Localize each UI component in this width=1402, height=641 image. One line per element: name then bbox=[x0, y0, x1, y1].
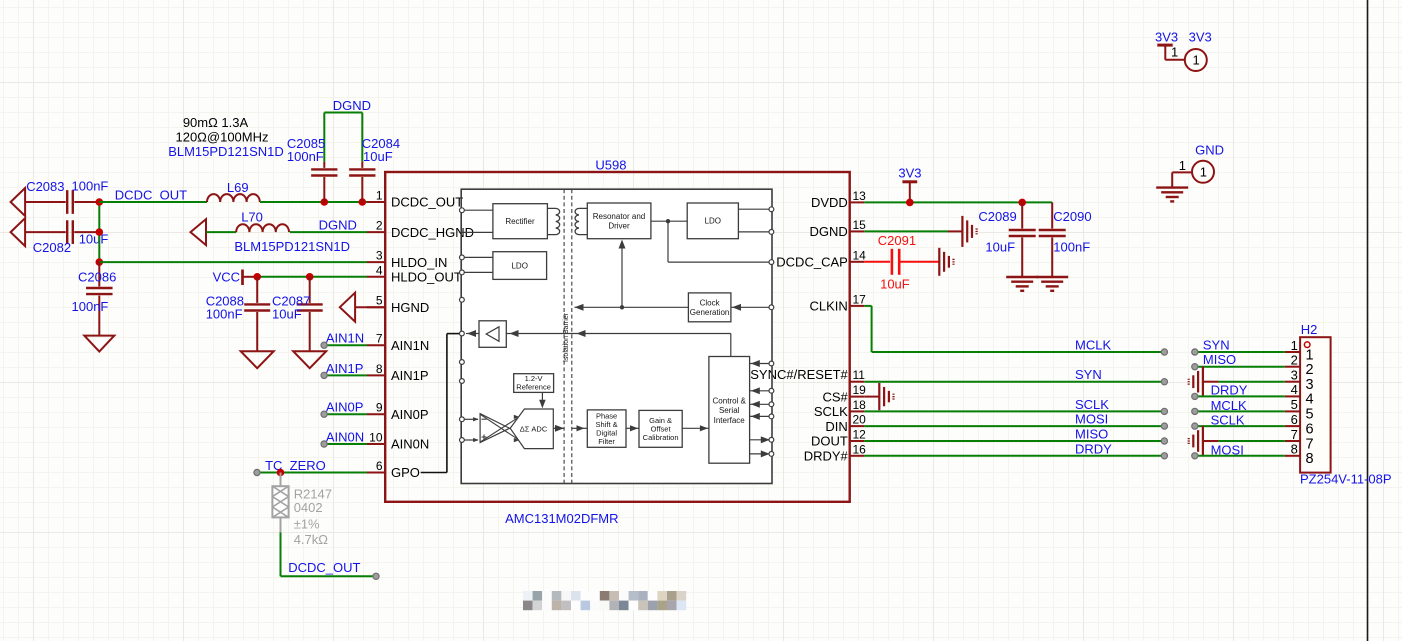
capacitor C2086 100nF bbox=[72, 262, 117, 336]
svg-text:5: 5 bbox=[1306, 407, 1314, 423]
svg-text:1: 1 bbox=[1193, 53, 1200, 68]
ground symbol (C2087) bbox=[293, 351, 326, 368]
block Clock Generation bbox=[688, 293, 731, 322]
svg-text:DCDC_OUT: DCDC_OUT bbox=[391, 195, 463, 210]
svg-text:Rectifier: Rectifier bbox=[505, 217, 535, 226]
svg-text:GND: GND bbox=[1195, 143, 1224, 158]
svg-text:DRDY#: DRDY# bbox=[804, 449, 849, 464]
junction bbox=[306, 273, 314, 281]
svg-text:DRDY: DRDY bbox=[1075, 441, 1112, 456]
svg-text:4.7kΩ: 4.7kΩ bbox=[294, 532, 329, 547]
svg-text:AIN1P: AIN1P bbox=[326, 361, 364, 376]
svg-text:2: 2 bbox=[1306, 362, 1314, 378]
wire control outputs bbox=[750, 439, 772, 441]
svg-text:4: 4 bbox=[1291, 382, 1298, 397]
wire 3V3 to test point bbox=[1165, 59, 1185, 61]
ground symbol sideways (H2 pin 7) bbox=[1202, 426, 1204, 456]
svg-text:DGND: DGND bbox=[810, 224, 848, 239]
wire L69 to U598 pin 1 bbox=[260, 201, 367, 203]
svg-text:DCDC_CAP: DCDC_CAP bbox=[776, 255, 848, 270]
unconnected end bbox=[373, 573, 379, 579]
unconnected end bbox=[321, 411, 327, 417]
ground symbol sideways (DGND) bbox=[948, 230, 962, 232]
svg-text:8: 8 bbox=[1306, 451, 1314, 467]
transformer coil (resonator side) bbox=[575, 208, 587, 234]
svg-text:10uF: 10uF bbox=[79, 232, 109, 247]
svg-text:8: 8 bbox=[376, 362, 383, 376]
svg-text:MCLK: MCLK bbox=[1075, 338, 1111, 353]
capacitor C2088 100nF bbox=[206, 277, 271, 351]
svg-text:LDO: LDO bbox=[511, 261, 527, 270]
unconnected end bbox=[321, 372, 327, 378]
wire R2147 to DCDC_OUT bbox=[280, 532, 282, 576]
input amplifier bbox=[480, 414, 510, 443]
test point connector 3V3, pin 1 bbox=[1171, 30, 1212, 72]
svg-text:19: 19 bbox=[853, 383, 867, 397]
wire H2 pin 5 MCLK bbox=[1195, 410, 1285, 412]
svg-text:Clock: Clock bbox=[700, 298, 721, 307]
svg-text:AIN1N: AIN1N bbox=[391, 338, 429, 353]
svg-text:MISO: MISO bbox=[1075, 427, 1108, 442]
block Rectifier bbox=[493, 204, 548, 239]
svg-text:C2086: C2086 bbox=[78, 269, 116, 284]
junction bbox=[321, 198, 329, 206]
transformer coil (rectifier side) bbox=[547, 208, 559, 234]
unconnected end bbox=[1192, 393, 1198, 399]
unconnected end bbox=[321, 342, 327, 348]
wire H2 pin 2 MISO bbox=[1195, 366, 1285, 368]
power port VCC bbox=[213, 270, 258, 286]
svg-text:2: 2 bbox=[1291, 353, 1298, 368]
U598 internal diagram background bbox=[461, 189, 772, 483]
wire amp output to GPO bubble bbox=[466, 333, 479, 335]
wire down into control box bbox=[730, 334, 732, 357]
junction bbox=[253, 273, 261, 281]
svg-text:L69: L69 bbox=[227, 180, 249, 195]
svg-text:H2: H2 bbox=[1301, 322, 1318, 337]
svg-text:AIN0N: AIN0N bbox=[326, 430, 364, 445]
svg-text:C2089: C2089 bbox=[978, 209, 1016, 224]
wire DVDD 3V3 bbox=[864, 201, 1052, 203]
connector circle GND pin 1 bbox=[1192, 161, 1214, 183]
svg-text:Control &: Control & bbox=[713, 397, 747, 406]
parameter text BLM15PD121SN1D (L69) bbox=[168, 115, 284, 159]
op-amp U598 AMC131M02DFMR body bbox=[385, 172, 850, 502]
svg-text:10uF: 10uF bbox=[880, 277, 910, 292]
svg-text:Interface: Interface bbox=[714, 416, 746, 425]
U598 pin 10 AIN0N bbox=[367, 431, 429, 452]
svg-text:100nF: 100nF bbox=[206, 306, 243, 321]
svg-text:12: 12 bbox=[853, 428, 867, 442]
svg-text:DVDD: DVDD bbox=[811, 195, 848, 210]
unconnected end bbox=[1192, 423, 1198, 429]
svg-text:100nF: 100nF bbox=[72, 178, 109, 193]
svg-text:5: 5 bbox=[1291, 397, 1298, 412]
wire LDO left inputs bbox=[463, 256, 493, 258]
svg-text:3V3: 3V3 bbox=[898, 166, 921, 181]
U598 pin 16 DRDY# bbox=[804, 442, 866, 463]
H2 pin 5 bbox=[1285, 397, 1314, 423]
ground symbol (C2090) bbox=[1036, 276, 1068, 278]
svg-text:Serial: Serial bbox=[719, 406, 740, 415]
svg-text:AMC131M02DFMR: AMC131M02DFMR bbox=[505, 511, 618, 526]
wire CLKIN to MCLK bbox=[864, 305, 871, 307]
svg-text:10: 10 bbox=[369, 431, 383, 445]
capacitor C2090 100nF bbox=[1039, 202, 1092, 277]
ground symbol (C2088) bbox=[241, 351, 274, 368]
block Resonator and Driver bbox=[587, 203, 651, 239]
svg-text:11: 11 bbox=[853, 368, 866, 382]
internal connection bubbles left bbox=[460, 208, 465, 213]
U598 pin 8 AIN1P bbox=[367, 362, 429, 383]
U598 pin 17 CLKIN bbox=[810, 292, 867, 313]
U598 pin 1 DCDC_OUT bbox=[367, 189, 463, 210]
wire serial to amp (crosses barrier) bbox=[506, 333, 731, 335]
wire amp to ADC (cross pair) bbox=[481, 415, 517, 439]
H2 pin 6 bbox=[1285, 412, 1314, 438]
unconnected end bbox=[1192, 364, 1198, 370]
wire DCDC_OUT to L69 bbox=[99, 201, 207, 203]
ground symbol (C2089) bbox=[1006, 276, 1038, 278]
unconnected end bbox=[254, 469, 260, 475]
svg-text:C2091: C2091 bbox=[878, 233, 916, 248]
wire DRDY bbox=[864, 455, 1164, 457]
ferrite bead L70 bbox=[236, 210, 289, 233]
svg-text:L70: L70 bbox=[241, 210, 263, 225]
wire H2 pin 7 bbox=[1203, 440, 1219, 442]
ground symbol sideways (DCDC_CAP) bbox=[938, 248, 940, 276]
svg-text:6: 6 bbox=[1291, 412, 1298, 427]
wire AIN1N bbox=[324, 344, 367, 346]
unconnected end bbox=[1192, 408, 1198, 414]
wire H2 pin 4 DRDY bbox=[1195, 395, 1285, 397]
ferrite bead L69 bbox=[207, 180, 260, 202]
svg-text:SYN: SYN bbox=[1203, 338, 1230, 353]
svg-text:6: 6 bbox=[1306, 421, 1314, 437]
block Phase Shift & Digital Filter bbox=[587, 410, 626, 447]
wire SCLK bbox=[864, 410, 1164, 412]
port arrow (left, C2083 row) bbox=[11, 188, 26, 216]
svg-text:9: 9 bbox=[376, 401, 383, 415]
svg-text:2: 2 bbox=[376, 219, 383, 233]
wire port to L70 bbox=[206, 231, 236, 233]
svg-text:10uF: 10uF bbox=[985, 240, 1015, 255]
wire SYN bbox=[864, 381, 1164, 383]
svg-text:1: 1 bbox=[376, 189, 383, 203]
capacitor C2083 100nF bbox=[25, 178, 108, 213]
svg-text:MOSI: MOSI bbox=[1075, 412, 1108, 427]
svg-text:TC_ZERO: TC_ZERO bbox=[265, 458, 326, 473]
U598 pin 19 CS# bbox=[823, 383, 867, 404]
svg-text:CLKIN: CLKIN bbox=[810, 299, 848, 314]
internal GPO wire bbox=[421, 472, 447, 474]
svg-text:SCLK: SCLK bbox=[1075, 397, 1109, 412]
svg-text:13: 13 bbox=[853, 189, 867, 203]
U598 pin 20 DIN bbox=[825, 413, 866, 434]
svg-text:DGND: DGND bbox=[333, 98, 371, 113]
junction (internal) bbox=[666, 219, 670, 223]
isolation barrier bbox=[563, 189, 565, 483]
block LDO (left) bbox=[493, 252, 547, 280]
U598 internal diagram box bbox=[461, 189, 772, 483]
junction bbox=[906, 199, 914, 207]
wire H2 pin 1 SYN bbox=[1195, 351, 1285, 353]
svg-text:Resonator and: Resonator and bbox=[593, 212, 645, 221]
power port 3V3 (DVDD) bbox=[898, 166, 921, 203]
wire barrier to phase shift bbox=[572, 427, 588, 429]
svg-text:7: 7 bbox=[1291, 427, 1298, 442]
junction (internal) bbox=[620, 305, 624, 309]
wire VCC to pin 4 bbox=[257, 276, 367, 278]
unconnected end bbox=[1161, 379, 1167, 385]
U598 pin 11 SYNC#/RESET# bbox=[750, 367, 865, 382]
port arrow (HGND pin 5) bbox=[340, 293, 355, 322]
svg-text:PZ254V-11-08P: PZ254V-11-08P bbox=[1300, 472, 1392, 487]
ground symbol (C2086) bbox=[84, 336, 114, 352]
wire to DCDC_CAP bbox=[667, 221, 669, 262]
wire GND test point bbox=[1172, 171, 1192, 173]
wire TC_ZERO bbox=[257, 472, 367, 474]
capacitor C2091 10uF (highlighted) bbox=[878, 233, 940, 291]
svg-text:8: 8 bbox=[1291, 442, 1298, 457]
svg-text:4: 4 bbox=[376, 263, 383, 277]
port arrow (left, C2082 row) bbox=[11, 218, 26, 246]
svg-text:AIN1P: AIN1P bbox=[391, 368, 429, 383]
wire clock to resonator bbox=[621, 242, 623, 308]
ground symbol sideways (CS#) bbox=[878, 383, 880, 410]
wire ADC to barrier bbox=[553, 427, 564, 429]
svg-text:3: 3 bbox=[1291, 368, 1298, 383]
svg-text:100nF: 100nF bbox=[1053, 240, 1090, 255]
svg-text:HLDO_OUT: HLDO_OUT bbox=[391, 270, 462, 285]
svg-text:1: 1 bbox=[1200, 165, 1207, 180]
power port 3V3 (top right) bbox=[1155, 30, 1178, 60]
svg-text:10uF: 10uF bbox=[363, 149, 393, 164]
wire DGND pin 15 bbox=[864, 230, 948, 232]
block Gain & Offset Calibration bbox=[639, 410, 682, 447]
wire clock to barrier bbox=[575, 306, 689, 308]
wire gain to control bbox=[682, 427, 709, 429]
U598 pin 4 HLDO_OUT bbox=[367, 263, 462, 284]
unconnected end bbox=[1161, 408, 1167, 414]
svg-text:Isolation Barrier: Isolation Barrier bbox=[563, 312, 570, 362]
wire vertical node DCDC_OUT left bbox=[98, 202, 100, 262]
pin 1 indicator circle bbox=[1304, 342, 1310, 348]
svg-text:Reference: Reference bbox=[516, 383, 551, 392]
capacitor C2085 100nF bbox=[287, 136, 338, 202]
wire reference to ADC bbox=[541, 392, 543, 407]
U598 pin 12 DOUT bbox=[811, 428, 866, 449]
svg-text:3: 3 bbox=[376, 249, 383, 263]
svg-text:AIN1N: AIN1N bbox=[326, 331, 364, 346]
wire CS# to ground bbox=[864, 396, 879, 398]
svg-text:100nF: 100nF bbox=[72, 299, 109, 314]
wire LDO outputs bbox=[738, 208, 772, 210]
wire DGND bracket bbox=[324, 112, 362, 114]
U598 pin 6 GPO bbox=[367, 459, 420, 480]
svg-text:14: 14 bbox=[853, 248, 867, 262]
svg-text:3V3: 3V3 bbox=[1155, 30, 1178, 45]
H2 pin 1 bbox=[1285, 338, 1314, 364]
wire HGND bbox=[356, 306, 385, 308]
H2 pin 8 bbox=[1285, 442, 1314, 468]
svg-text:SCLK: SCLK bbox=[814, 404, 848, 419]
svg-text:100nF: 100nF bbox=[287, 149, 324, 164]
svg-text:BLM15PD121SN1D: BLM15PD121SN1D bbox=[234, 239, 350, 254]
wire H2 pin 8 MOSI bbox=[1195, 455, 1285, 457]
internal connection bubbles right bbox=[769, 207, 774, 212]
svg-text:LDO: LDO bbox=[705, 217, 721, 226]
block Control & Serial Interface bbox=[709, 357, 750, 464]
U598 pin 7 AIN1N bbox=[367, 332, 429, 353]
svg-text:17: 17 bbox=[853, 292, 867, 306]
svg-text:AIN0P: AIN0P bbox=[326, 400, 364, 415]
unconnected end bbox=[1161, 438, 1167, 444]
capacitor C2087 10uF bbox=[272, 277, 323, 351]
wire MOSI bbox=[864, 425, 1164, 427]
wire AIN1P bbox=[324, 374, 367, 376]
port arrow (L70 row) bbox=[191, 219, 207, 245]
wire rectifier inputs bbox=[463, 209, 493, 211]
U598 pin 5 HGND bbox=[367, 294, 429, 315]
svg-text:Generation: Generation bbox=[690, 308, 730, 317]
wire L70 to U598 pin 2 bbox=[290, 231, 367, 233]
junction bbox=[1018, 199, 1026, 207]
svg-text:20: 20 bbox=[853, 413, 867, 427]
svg-text:7: 7 bbox=[376, 332, 383, 346]
svg-text:5: 5 bbox=[376, 294, 383, 308]
wire AIN0P bbox=[324, 413, 367, 415]
block output amp bbox=[479, 321, 506, 348]
svg-text:DGND: DGND bbox=[319, 217, 357, 232]
blurred watermark bbox=[523, 591, 686, 610]
svg-text:AIN0N: AIN0N bbox=[391, 437, 429, 452]
wire AIN0N bbox=[324, 443, 367, 445]
ground symbol GND bbox=[1156, 186, 1188, 188]
wire CLKIN to clock generation bbox=[731, 306, 772, 308]
U598 pin 13 DVDD bbox=[811, 189, 866, 210]
svg-text:C2090: C2090 bbox=[1053, 209, 1091, 224]
unconnected end bbox=[1161, 349, 1167, 355]
svg-text:DCDC_OUT: DCDC_OUT bbox=[115, 188, 187, 203]
block 1.2-V Reference bbox=[514, 374, 554, 393]
U598 pin 18 SCLK bbox=[814, 398, 866, 419]
wire control inputs bbox=[750, 363, 772, 365]
wire H2 pin 6 SCLK bbox=[1195, 425, 1285, 427]
junction bbox=[96, 228, 104, 236]
wire AIN inputs to amp bbox=[463, 418, 479, 420]
junction bbox=[277, 469, 285, 477]
svg-text:CS#: CS# bbox=[823, 389, 849, 404]
unconnected end bbox=[1192, 349, 1198, 355]
svg-text:15: 15 bbox=[853, 218, 867, 232]
wire H2 pin 3 bbox=[1203, 381, 1219, 383]
svg-text:1: 1 bbox=[1306, 347, 1314, 363]
svg-text:DRDY: DRDY bbox=[1211, 383, 1248, 398]
resistor R2147 (not fitted) bbox=[272, 473, 332, 548]
svg-text:MOSI: MOSI bbox=[1211, 443, 1244, 458]
svg-text:BLM15PD121SN1D: BLM15PD121SN1D bbox=[168, 144, 284, 159]
svg-text:ΔΣ ADC: ΔΣ ADC bbox=[520, 424, 548, 433]
svg-text:3: 3 bbox=[1306, 377, 1314, 393]
svg-text:MISO: MISO bbox=[1203, 352, 1236, 367]
svg-text:1: 1 bbox=[1179, 158, 1186, 173]
junction bbox=[96, 258, 104, 266]
junction bbox=[96, 198, 104, 206]
H2 pin 4 bbox=[1285, 382, 1314, 408]
power port GND test point bbox=[1179, 143, 1224, 174]
svg-text:16: 16 bbox=[853, 442, 867, 456]
unconnected end bbox=[1161, 453, 1167, 459]
U598 pin 9 AIN0P bbox=[367, 401, 429, 422]
block delta-sigma ADC bbox=[510, 409, 553, 449]
svg-text:1: 1 bbox=[1291, 338, 1298, 353]
block LDO (top right) bbox=[687, 203, 738, 239]
wire HLDO_IN row bbox=[99, 261, 367, 263]
svg-text:C2082: C2082 bbox=[33, 240, 71, 255]
svg-text:0402: 0402 bbox=[294, 500, 323, 515]
U598 pin 14 DCDC_CAP bbox=[776, 248, 866, 269]
U598 pin 3 HLDO_IN bbox=[367, 249, 447, 270]
svg-text:Driver: Driver bbox=[608, 221, 630, 230]
unconnected end bbox=[321, 441, 327, 447]
H2 pin 3 bbox=[1285, 368, 1314, 394]
connector H2 body bbox=[1300, 337, 1331, 472]
U598 pin 15 DGND bbox=[810, 218, 867, 239]
svg-text:120Ω@100MHz: 120Ω@100MHz bbox=[175, 130, 268, 145]
H2 pin 2 bbox=[1285, 353, 1314, 379]
svg-text:SYN: SYN bbox=[1075, 367, 1102, 382]
svg-text:HGND: HGND bbox=[391, 300, 429, 315]
unconnected end bbox=[1192, 453, 1198, 459]
svg-text:AIN0P: AIN0P bbox=[391, 407, 429, 422]
svg-text:DOUT: DOUT bbox=[811, 434, 848, 449]
svg-text:DCDC_OUT: DCDC_OUT bbox=[288, 560, 360, 575]
junction bbox=[359, 198, 367, 206]
svg-text:6: 6 bbox=[376, 459, 383, 473]
svg-text:SCLK: SCLK bbox=[1211, 413, 1245, 428]
svg-text:10uF: 10uF bbox=[272, 306, 302, 321]
sheet border edge bbox=[1367, 0, 1369, 641]
H2 pin 7 bbox=[1285, 427, 1314, 453]
svg-text:SYNC#/RESET#: SYNC#/RESET# bbox=[750, 367, 848, 382]
svg-text:HLDO_IN: HLDO_IN bbox=[391, 255, 447, 270]
svg-text:C2083: C2083 bbox=[26, 179, 64, 194]
svg-text:Calibration: Calibration bbox=[643, 433, 679, 442]
svg-text:VCC: VCC bbox=[213, 270, 240, 285]
svg-text:DIN: DIN bbox=[825, 419, 847, 434]
capacitor C2089 10uF bbox=[978, 202, 1035, 277]
wire MISO bbox=[864, 440, 1164, 442]
wire resonator to LDO bbox=[651, 220, 687, 222]
svg-text:Filter: Filter bbox=[598, 437, 615, 446]
svg-text:18: 18 bbox=[853, 398, 867, 412]
wire phase to gain bbox=[626, 427, 639, 429]
svg-text:4: 4 bbox=[1306, 392, 1314, 408]
svg-text:U598: U598 bbox=[595, 157, 626, 172]
U598 pin 2 DCDC_HGND bbox=[367, 219, 474, 240]
svg-text:7: 7 bbox=[1306, 436, 1314, 452]
svg-text:1: 1 bbox=[1171, 45, 1178, 60]
svg-text:GPO: GPO bbox=[391, 465, 420, 480]
svg-text:90mΩ 1.3A: 90mΩ 1.3A bbox=[183, 115, 249, 130]
svg-text:±1%: ±1% bbox=[294, 516, 320, 531]
svg-text:3V3: 3V3 bbox=[1189, 30, 1212, 45]
capacitor C2082 10uF bbox=[25, 220, 108, 255]
capacitor C2084 10uF bbox=[349, 136, 400, 202]
ground symbol sideways (H2 pin 3) bbox=[1202, 367, 1204, 397]
wire DCDC_CAP (highlighted) bbox=[864, 261, 890, 263]
